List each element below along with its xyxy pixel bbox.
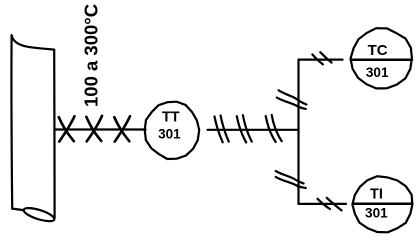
instrument bubble TC 301 (panel mounted) <box>351 28 412 88</box>
bus slash pair upper <box>277 90 307 109</box>
process pipe top edge <box>12 35 55 49</box>
TT tag text <box>158 110 181 142</box>
capillary X mark 1 <box>59 116 75 141</box>
capillary X mark 2 <box>86 116 102 142</box>
TC panel-mount line <box>351 58 412 61</box>
wire to TI 301 <box>299 203 347 205</box>
signal wire TT to junction node <box>208 129 299 131</box>
signal slash pair 3 <box>266 115 282 142</box>
vertical bus wire (junction to branches) <box>297 60 299 204</box>
capillary line from pipe to TT <box>55 128 146 130</box>
svg-text:301: 301 <box>366 65 389 80</box>
svg-text:301: 301 <box>158 127 181 142</box>
range label "100 a 300°C" <box>81 4 102 107</box>
TI tag text <box>365 186 388 220</box>
signal slash pair 2 <box>237 115 252 142</box>
wire to TC 301 <box>299 58 343 60</box>
svg-text:TT: TT <box>162 110 180 126</box>
process pipe bottom stub <box>12 209 23 211</box>
process pipe right wall <box>53 50 56 219</box>
instrument bubble TI 301 (panel mounted) <box>352 176 412 232</box>
TC tag text <box>366 42 389 80</box>
svg-text:TC: TC <box>368 42 388 59</box>
TI wire slash pair <box>318 198 342 211</box>
instrument bubble TT 301 (field mounted) <box>145 102 200 159</box>
svg-text:100 a 300°C: 100 a 300°C <box>81 4 102 107</box>
TI panel-mount line <box>353 203 413 206</box>
process pipe (vessel) left wall <box>10 35 13 208</box>
svg-text:301: 301 <box>365 206 388 221</box>
svg-text:TI: TI <box>370 186 383 202</box>
TC wire slash pair <box>312 52 331 64</box>
process pipe bottom open end (ellipse) <box>22 205 55 223</box>
capillary X mark 3 <box>114 116 130 141</box>
signal slash pair 1 <box>215 116 229 143</box>
bus slash pair lower <box>276 171 306 188</box>
